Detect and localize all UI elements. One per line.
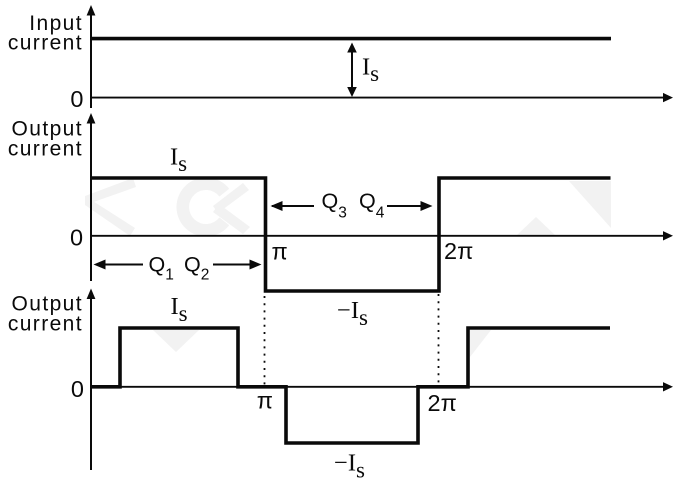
- svg-text:2π: 2π: [444, 238, 473, 264]
- svg-text:current: current: [8, 137, 83, 160]
- svg-text:0: 0: [70, 86, 83, 112]
- svg-text:π: π: [272, 239, 288, 265]
- svg-text:current: current: [8, 312, 83, 335]
- svg-text:π: π: [257, 387, 273, 413]
- svg-text:0: 0: [70, 224, 83, 250]
- svg-text:2π: 2π: [428, 390, 457, 416]
- svg-text:0: 0: [71, 376, 84, 402]
- svg-text:current: current: [8, 32, 83, 55]
